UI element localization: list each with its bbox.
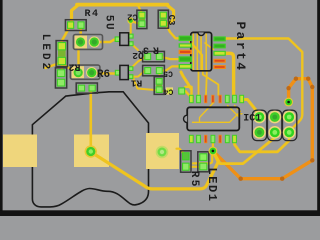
- right border: [317, 0, 320, 216]
- wire R3 to U2 pin4: [159, 57, 179, 60]
- component capacitor C4: [154, 77, 164, 95]
- J1 column 1 outline: [252, 110, 266, 140]
- svg-text:C3: C3: [166, 15, 176, 26]
- U2 pin 6: [213, 65, 225, 69]
- component resistor R2: [55, 68, 66, 88]
- wire LED2 left branch: [46, 64, 59, 69]
- wire J1 pad5 to via2: [213, 134, 275, 164]
- U2 pin 4: [179, 56, 192, 62]
- J1 column 3 outline: [283, 110, 297, 140]
- IC1 pin bottom 5: [219, 135, 222, 143]
- U1 pad 1 square: [75, 36, 87, 49]
- wire U2 to IC1 pin1 col: [198, 71, 200, 96]
- svg-text:LED2: LED2: [39, 34, 51, 72]
- svg-text:C5: C5: [163, 69, 173, 78]
- wire R4 to Y1 pad: [79, 25, 82, 40]
- orange wire joint: [310, 85, 314, 89]
- U1 pad 2 round: [89, 36, 100, 47]
- svg-text:R6: R6: [97, 69, 110, 81]
- J1 pad at 274.8,117: [268, 111, 281, 124]
- bottom border: [0, 210, 320, 216]
- U2 pin 10: [213, 36, 225, 41]
- IC1 pin bottom 3: [204, 135, 207, 143]
- U2 pin 5: [179, 64, 192, 69]
- IC1 pin top 7: [232, 95, 237, 103]
- IC1 pin top 6: [225, 95, 230, 103]
- wire U2 to IC1 jog: [203, 71, 219, 96]
- component capacitor C2: [137, 10, 147, 28]
- wire Q1 to C5: [131, 71, 145, 77]
- svg-text:C4: C4: [164, 87, 174, 96]
- svg-text:R2: R2: [68, 61, 80, 72]
- component resistor R3: [143, 51, 165, 61]
- svg-text:R1: R1: [131, 78, 143, 89]
- svg-text:LED1: LED1: [205, 167, 219, 202]
- IC1 pin bottom 2: [196, 135, 201, 143]
- pad square S2: [74, 135, 109, 168]
- wire top bus: [77, 3, 167, 7]
- wire Q1 to C4: [133, 78, 155, 91]
- orange wire joint: [239, 177, 243, 181]
- component capacitor C7: [76, 83, 97, 93]
- svg-text:Part4: Part4: [233, 21, 248, 72]
- U2 pin 1: [179, 36, 192, 41]
- component resistor R4: [65, 20, 86, 31]
- U2 pin 7: [213, 59, 225, 63]
- component R6 package outline: [70, 65, 100, 79]
- board outline silkscreen: [32, 92, 148, 207]
- orange wire joint: [294, 77, 298, 81]
- wire R4 to LED2: [62, 25, 71, 45]
- wire thick U2 right to IC1 pad7: [225, 53, 234, 95]
- J1 pad at 259.4,132.4: [253, 126, 266, 139]
- J1 pad at 289.2,132.4: [283, 126, 296, 139]
- IC1 pin top 2: [196, 95, 201, 103]
- orange wire joint: [286, 86, 290, 90]
- wire S2 pad up: [90, 92, 93, 152]
- svg-text:5U: 5U: [103, 15, 115, 31]
- wire top bus left drop to R4: [72, 5, 79, 23]
- wire C5 to C4: [158, 71, 160, 77]
- wire U2 interior pins: [192, 34, 194, 70]
- component capacitor C5: [143, 65, 165, 75]
- IC1 pin top 5: [219, 95, 222, 103]
- wire IC1 pad7 to J1 pad6: [235, 134, 290, 152]
- transistor Q2: [115, 36, 121, 42]
- wire long right net U2 to J1: [224, 39, 302, 132]
- pad square S3: [146, 133, 179, 169]
- svg-text:C2: C2: [127, 12, 138, 22]
- wire C2 to via3: [132, 22, 139, 24]
- orange wire joint: [280, 177, 284, 181]
- component LED LED1: [198, 152, 209, 172]
- U2 pin 8: [213, 51, 225, 56]
- IC1 pin top 8: [239, 95, 244, 103]
- component capacitor C3: [158, 10, 168, 28]
- wire IC1 pad8 to J1 pad1: [242, 100, 260, 115]
- IC1 pin bottom 1: [189, 135, 194, 143]
- left border: [0, 0, 3, 216]
- op-amp U2 outline: [191, 32, 212, 70]
- wire Y1 to Q2: [96, 39, 115, 42]
- orange wire joint: [306, 77, 310, 81]
- wire cluster diag to U2: [190, 42, 202, 71]
- IC1 interior wires: [200, 103, 214, 122]
- wire M right pad down: [185, 91, 191, 98]
- wire S3 stub: [177, 149, 184, 154]
- wire LED2 branch: [62, 64, 73, 71]
- wire C2 top to bus: [138, 6, 142, 13]
- pad square S1: [3, 135, 37, 168]
- component C6: [166, 87, 173, 94]
- U2 pin 9: [213, 44, 225, 49]
- wire Y1 to R6: [77, 47, 79, 68]
- wire top bus right drop to C3: [167, 5, 174, 24]
- IC1 pin bottom 4: [211, 135, 216, 143]
- U2 pin 2: [179, 43, 192, 47]
- component LED LED2: [56, 41, 67, 67]
- transistor Q1: [115, 70, 121, 76]
- IC1 pin top 3: [204, 95, 207, 103]
- IC1 outline: [187, 107, 239, 130]
- svg-text:R5: R5: [188, 171, 200, 189]
- wire R6 to Q1: [93, 72, 115, 75]
- svg-text:IC1: IC1: [243, 114, 261, 125]
- wire U2 to IC1 straight: [205, 71, 208, 96]
- wire R5-LED link: [189, 166, 201, 168]
- IC1 pin bottom 7: [232, 135, 237, 143]
- svg-text:Q2: Q2: [132, 50, 144, 61]
- J1 pad at 289.2,117: [283, 111, 296, 124]
- wire C4 to M: [162, 90, 167, 92]
- component U1 package outline: [73, 35, 102, 50]
- wire Q2 lower branch: [131, 44, 138, 51]
- wire LED2 to R2: [61, 63, 63, 71]
- IC1 pin bottom 6: [225, 135, 230, 143]
- wire C5 to U2 pin5: [159, 66, 179, 70]
- orange wire joint: [310, 158, 314, 162]
- IC1 pin top 4: [211, 95, 214, 103]
- R6 pad 2 round: [86, 67, 97, 78]
- wire Q1 to R3 pads: [131, 57, 145, 68]
- S3 pad ring: [156, 146, 169, 159]
- component resistor R5: [181, 151, 191, 172]
- via V3: [127, 17, 134, 24]
- J1 pad at 259.4,117: [253, 111, 266, 124]
- J1 pad at 274.8,132.4: [268, 126, 281, 139]
- wire via2 to IC1 pad4: [212, 144, 214, 151]
- wire C3 to U2 pin1: [166, 25, 179, 39]
- orange bottom-layer wire via1 to via2: [213, 79, 312, 179]
- R6 pad 1 square: [72, 66, 84, 78]
- wire cluster to IC1 pin1: [181, 72, 191, 89]
- wire U2 interior diag: [205, 43, 213, 50]
- U2 pin 3: [179, 50, 192, 54]
- wire via2 to S2: [91, 151, 218, 189]
- IC1 pin top 1: [189, 95, 194, 103]
- IC1 notch: [184, 115, 188, 122]
- wire via2 to LED: [193, 151, 212, 164]
- wire via3 to Q2: [130, 21, 132, 34]
- U2 notch: [198, 32, 204, 35]
- via V1: [284, 98, 293, 107]
- svg-text:R4: R4: [84, 9, 99, 20]
- J1 column 2 outline: [268, 110, 282, 140]
- via V2: [209, 147, 218, 156]
- S2 pad ring: [85, 145, 97, 157]
